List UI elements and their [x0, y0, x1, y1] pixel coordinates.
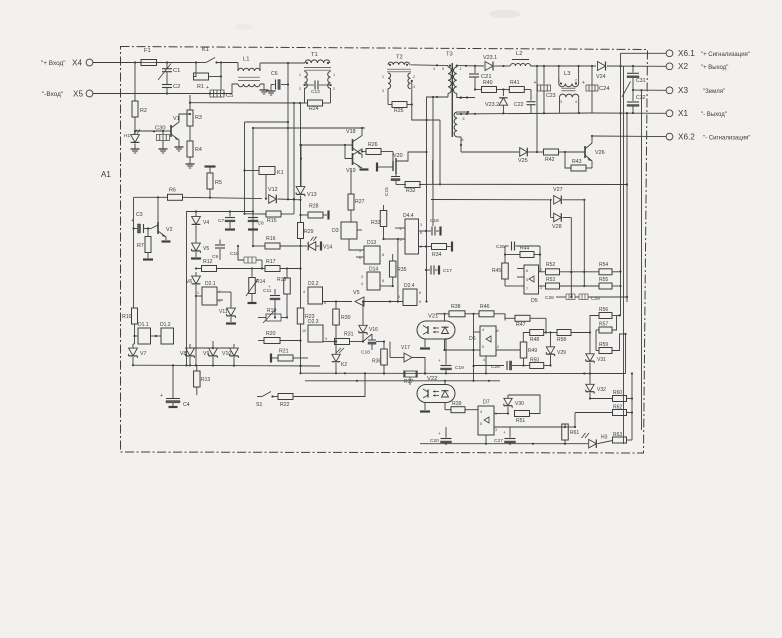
resistor R32: [396, 182, 433, 195]
trimmer R37: [404, 371, 417, 386]
svg-text:5: 5: [480, 422, 482, 426]
wire vert x433: [432, 96, 434, 226]
svg-text:R29: R29: [304, 229, 314, 235]
terminal X1: [666, 109, 727, 118]
resistor R47: [505, 314, 546, 328]
svg-text:X2: X2: [678, 62, 688, 71]
IC D2.1: [196, 281, 223, 305]
svg-text:6: 6: [462, 138, 464, 142]
IC D2.3: [302, 319, 327, 342]
wire rail x625 upper: [624, 333, 626, 374]
resistor R34: [426, 242, 452, 259]
svg-text:+: +: [268, 284, 271, 289]
svg-text:R46: R46: [480, 304, 490, 310]
svg-text:2: 2: [575, 79, 577, 83]
svg-text:D1.1: D1.1: [138, 322, 149, 328]
svg-text:V28: V28: [552, 224, 562, 230]
trimmer arrow C1: [158, 64, 171, 81]
resistor R45: [492, 263, 517, 286]
LED H1: [124, 130, 140, 146]
svg-text:F1: F1: [144, 48, 151, 54]
zener V11: [219, 308, 236, 323]
diode V12: [268, 187, 302, 203]
svg-text:V10: V10: [222, 351, 231, 357]
resistor R1: [194, 63, 223, 91]
transformer T1: [299, 52, 335, 91]
svg-text:R28: R28: [309, 204, 319, 210]
svg-text:C13: C13: [311, 89, 320, 95]
LED K2: [332, 340, 348, 373]
svg-text:R32: R32: [406, 188, 416, 194]
capacitor C16: [426, 218, 441, 236]
capacitor C8: [248, 210, 264, 229]
diode V23.2: [485, 90, 508, 115]
transistor V19: [346, 149, 369, 174]
terminal X6.1: [666, 49, 750, 58]
svg-text:R58: R58: [557, 337, 566, 343]
svg-text:R27: R27: [355, 199, 365, 205]
resistor R43: [565, 152, 592, 171]
svg-text:D13: D13: [367, 240, 376, 246]
wire rail to V23.1: [456, 65, 484, 67]
svg-text:1: 1: [382, 75, 384, 79]
svg-text:R48: R48: [530, 337, 539, 343]
resistor R5: [205, 167, 222, 198]
wire column x133: [132, 197, 134, 308]
svg-text:5: 5: [463, 117, 465, 121]
IC D14: [361, 267, 384, 291]
wire D7 out ext: [565, 426, 575, 428]
resistor R13: [194, 365, 211, 395]
svg-text:R23: R23: [305, 314, 315, 320]
svg-text:R55: R55: [599, 277, 608, 283]
svg-text:C23: C23: [546, 93, 556, 99]
resistor R56: [599, 307, 621, 319]
svg-text:3: 3: [382, 89, 384, 93]
wire T3 primary bottom: [427, 96, 449, 178]
wire X6.2: [592, 135, 666, 138]
svg-text:R34: R34: [432, 252, 442, 258]
wire x294: [293, 103, 295, 214]
zener V13: [296, 187, 316, 210]
wire X1: [592, 112, 666, 114]
resistor R61: [562, 424, 580, 444]
svg-text:C24: C24: [599, 86, 610, 92]
zener V10: [222, 344, 238, 366]
svg-text:D5: D5: [531, 298, 538, 304]
svg-text:C16: C16: [430, 218, 439, 224]
svg-text:2: 2: [413, 75, 415, 79]
svg-text:2: 2: [497, 345, 499, 349]
transformer T2: [382, 55, 415, 94]
resistor R26: [362, 142, 393, 155]
wire rail y184: [433, 160, 628, 186]
resistor R16: [253, 236, 301, 249]
wire V22 pins: [420, 380, 446, 412]
buffer V5: [353, 290, 403, 306]
svg-text:4: 4: [483, 358, 485, 362]
svg-text:V8: V8: [180, 351, 186, 357]
resistor R22: [273, 373, 366, 408]
inductor L2: [511, 51, 531, 66]
wire x300: [299, 103, 301, 187]
capacitor C31: [627, 66, 646, 91]
svg-text:R37: R37: [404, 379, 413, 385]
capacitor C30: [135, 126, 170, 147]
resistor R6: [134, 188, 268, 201]
ground under L1: [260, 87, 269, 94]
terminal X6.2: [666, 133, 750, 142]
svg-text:R6: R6: [169, 188, 176, 194]
svg-text:R10: R10: [122, 314, 132, 320]
svg-text:R44: R44: [520, 246, 529, 252]
svg-text:+: +: [438, 431, 441, 436]
svg-text:+: +: [438, 358, 441, 363]
svg-text:C6: C6: [271, 71, 278, 77]
wire x301 down: [300, 246, 302, 308]
wire rail x623: [623, 66, 625, 444]
terminal X5: [42, 90, 93, 99]
svg-text:D2.2: D2.2: [308, 281, 319, 287]
svg-text:R31: R31: [344, 332, 354, 338]
wire x632: [631, 372, 633, 440]
svg-text:V23.1: V23.1: [483, 55, 497, 61]
svg-text:4: 4: [575, 100, 577, 104]
svg-text:S1: S1: [256, 402, 262, 408]
svg-text:C20: C20: [430, 438, 439, 444]
wire x571: [570, 218, 572, 299]
wire x253 mid: [252, 128, 254, 247]
resistor R63: [613, 432, 633, 443]
resistor R21: [271, 349, 308, 363]
resistor R40: [474, 80, 510, 93]
wire D5 pins: [517, 269, 524, 287]
wire V18 base: [301, 144, 353, 146]
resistor R53: [539, 277, 600, 289]
resistor R33: [371, 205, 387, 240]
resistor R52: [539, 262, 600, 275]
resistor R4: [187, 141, 202, 161]
svg-text:1: 1: [558, 79, 560, 83]
svg-text:V17: V17: [401, 345, 410, 351]
svg-text:5: 5: [526, 278, 528, 282]
svg-text:D2.4: D2.4: [404, 283, 415, 289]
capacitor C15: [377, 163, 400, 197]
wire x398: [397, 239, 399, 302]
svg-text:"+ Сигнализация": "+ Сигнализация": [701, 52, 750, 58]
zener V9: [203, 341, 217, 366]
svg-text:X1: X1: [678, 109, 688, 118]
svg-text:5: 5: [442, 67, 444, 71]
wire y122: [245, 121, 290, 123]
wire V23.1-L2: [494, 65, 510, 67]
svg-text:R7: R7: [137, 243, 144, 249]
svg-text:+: +: [160, 393, 163, 399]
svg-text:8: 8: [419, 291, 421, 295]
svg-text:V26: V26: [595, 150, 605, 156]
svg-text:C26: C26: [491, 364, 500, 370]
capacitor C4: [160, 365, 190, 408]
wire X3: [633, 89, 666, 91]
transistor V1: [163, 114, 190, 144]
wire D6 pins: [472, 314, 480, 382]
resistor R62: [574, 405, 632, 429]
svg-text:R52: R52: [546, 262, 555, 268]
wire D4 pins: [382, 228, 427, 248]
svg-text:T1: T1: [311, 52, 318, 58]
transistor V18: [346, 127, 363, 158]
wire V19 base: [344, 144, 353, 159]
svg-text:3: 3: [540, 286, 542, 290]
resistor R42: [544, 149, 586, 163]
svg-text:L3: L3: [564, 71, 570, 77]
svg-text:1: 1: [495, 412, 497, 416]
comparator D5: [524, 265, 542, 304]
svg-text:C8: C8: [258, 221, 264, 227]
svg-text:R39: R39: [452, 401, 462, 407]
svg-text:3: 3: [420, 223, 422, 227]
transistor V2: [150, 197, 173, 241]
svg-text:K1: K1: [202, 47, 209, 53]
resistor R54: [599, 262, 621, 275]
capacitor C27: [494, 427, 516, 445]
resistor R48: [523, 318, 557, 343]
svg-text:V31: V31: [597, 357, 606, 363]
svg-text:D2.1: D2.1: [205, 281, 216, 287]
svg-text:R51: R51: [516, 418, 525, 424]
svg-text:H3: H3: [601, 435, 608, 441]
transistor V20 mosfet: [393, 151, 428, 176]
svg-text:"-Вход": "-Вход": [42, 91, 63, 98]
diode V27: [550, 187, 586, 204]
svg-text:C7: C7: [218, 218, 224, 224]
optocoupler V22: [417, 376, 455, 403]
svg-text:R60: R60: [613, 390, 622, 396]
svg-text:V27: V27: [553, 187, 563, 193]
resistor R60: [589, 390, 632, 402]
svg-text:"Земля": "Земля": [703, 89, 725, 95]
zener V31: [586, 333, 606, 374]
svg-text:X4: X4: [72, 59, 82, 68]
ground under H1: [131, 146, 140, 153]
transistor V26: [585, 135, 605, 168]
svg-text:V32: V32: [597, 387, 606, 393]
svg-text:9: 9: [419, 300, 421, 304]
svg-text:+: +: [534, 80, 537, 86]
capacitor C7: [218, 212, 235, 230]
wire rail x537: [536, 66, 538, 152]
svg-text:T2: T2: [396, 55, 403, 61]
svg-text:K2: K2: [341, 362, 347, 368]
capacitor C3: [131, 212, 150, 233]
capacitor C24: [582, 66, 610, 113]
zener V30: [504, 395, 524, 415]
wire bottom rail X1: [456, 112, 592, 115]
wire mid bus y103: [189, 102, 305, 105]
svg-text:R17: R17: [266, 259, 276, 265]
svg-text:4: 4: [482, 328, 484, 332]
capacitor C2: [162, 72, 180, 94]
svg-text:R61: R61: [570, 430, 579, 436]
svg-text:V23.2: V23.2: [485, 102, 499, 108]
svg-text:X3: X3: [678, 86, 688, 95]
svg-text:+: +: [503, 430, 506, 435]
ground under C6: [267, 88, 276, 95]
resistor R57: [599, 316, 617, 334]
wire D2.1 out: [217, 292, 231, 308]
svg-text:R18: R18: [277, 277, 286, 283]
IC D1.1: [135, 322, 151, 344]
wire K1-L1: [217, 62, 239, 64]
inductor L3: [558, 65, 580, 113]
wire x196 down: [195, 296, 197, 365]
svg-text:+: +: [206, 85, 209, 91]
resistor R15: [245, 211, 295, 224]
terminal X2: [666, 62, 728, 71]
wire x301 top: [300, 144, 302, 186]
wire rail x426: [425, 178, 427, 303]
svg-text:D4.4: D4.4: [403, 213, 414, 219]
svg-text:R47: R47: [516, 322, 526, 328]
svg-text:"+ Выход": "+ Выход": [701, 65, 728, 71]
wire L2-V24: [531, 65, 597, 67]
svg-text:V16: V16: [369, 327, 378, 333]
wire rail x620: [619, 53, 621, 316]
zener V29: [546, 333, 566, 367]
resistor R38: [436, 304, 479, 317]
resistor R7: [137, 229, 153, 260]
wire L1-T1: [260, 62, 305, 64]
svg-text:V14: V14: [323, 245, 332, 251]
resistor R27: [348, 168, 365, 222]
svg-text:C15: C15: [384, 187, 390, 196]
capacitor C17: [425, 266, 452, 275]
diode V25: [518, 148, 528, 164]
svg-text:L1: L1: [243, 57, 249, 63]
svg-text:R25: R25: [394, 108, 404, 114]
svg-text:7: 7: [526, 287, 528, 291]
svg-text:C10: C10: [230, 251, 239, 257]
wire R56 left: [590, 316, 599, 333]
svg-text:4: 4: [413, 85, 415, 89]
svg-text:V13: V13: [307, 192, 317, 198]
wire x584: [583, 200, 585, 287]
ground under C30: [159, 146, 168, 153]
svg-text:C5: C5: [226, 93, 233, 99]
svg-text:X6.2: X6.2: [678, 133, 695, 142]
resistor R12: [195, 259, 265, 272]
zener V32: [586, 374, 606, 399]
transformer T3: [433, 52, 465, 143]
svg-text:V1: V1: [173, 116, 180, 122]
diode V24: [596, 62, 606, 81]
terminal X4: [41, 59, 93, 68]
trimmer R14: [246, 269, 265, 304]
svg-text:C3: C3: [136, 212, 143, 218]
svg-text:R22: R22: [280, 402, 290, 408]
svg-text:6: 6: [526, 269, 528, 273]
svg-text:3: 3: [361, 275, 363, 279]
svg-text:V5: V5: [353, 290, 360, 296]
capacitor C25: [496, 242, 540, 251]
svg-text:V9: V9: [203, 351, 209, 357]
ground under R4: [186, 161, 195, 168]
wire T3 sec1 bottom: [457, 93, 475, 98]
svg-text:X6.1: X6.1: [678, 49, 695, 58]
capacitor C19: [438, 338, 464, 374]
zener V5 shunt: [191, 243, 209, 258]
capacitor C13: [303, 81, 331, 96]
resistor R3: [187, 95, 202, 141]
wire F1-K1: [157, 61, 200, 63]
svg-text:R24: R24: [309, 106, 319, 112]
svg-text:C32: C32: [636, 95, 646, 101]
svg-text:R35: R35: [397, 267, 407, 273]
svg-text:V6: V6: [186, 279, 192, 285]
svg-text:R2: R2: [140, 108, 147, 114]
choke L1: [232, 57, 264, 94]
svg-text:R38: R38: [451, 304, 461, 310]
resistor R39: [445, 401, 478, 413]
svg-text:H1: H1: [124, 133, 130, 139]
svg-text:1: 1: [460, 67, 462, 71]
svg-text:V22: V22: [427, 376, 437, 382]
svg-text:R5: R5: [215, 180, 222, 186]
svg-text:9: 9: [325, 337, 327, 341]
LED H3: [582, 433, 613, 448]
resistor R50: [522, 358, 550, 369]
svg-text:4: 4: [398, 295, 400, 299]
wire rail y365 link: [299, 365, 301, 375]
wire T3 sec2: [457, 111, 469, 152]
svg-text:R15: R15: [267, 218, 277, 224]
svg-text:R1: R1: [197, 84, 204, 90]
resistor R31: [323, 332, 363, 345]
zener V7: [129, 344, 147, 365]
svg-text:1: 1: [299, 73, 301, 77]
svg-text:R56: R56: [599, 307, 608, 313]
svg-text:5: 5: [359, 249, 361, 253]
svg-text:R40: R40: [483, 80, 493, 86]
svg-text:C28: C28: [545, 295, 554, 301]
svg-text:"+ Вход": "+ Вход": [41, 60, 66, 67]
svg-text:R12: R12: [203, 259, 213, 265]
svg-text:R13: R13: [201, 377, 210, 383]
comparator D7: [478, 400, 497, 436]
svg-text:8: 8: [382, 253, 384, 257]
capacitor C10: [230, 245, 263, 270]
resistor R25: [388, 81, 413, 114]
svg-text:V25: V25: [518, 158, 528, 164]
capacitor C6: [271, 71, 289, 90]
ground under V1: [175, 144, 184, 151]
wire x244: [243, 122, 245, 215]
svg-text:C25: C25: [496, 244, 505, 250]
wire rail x641: [641, 90, 643, 430]
svg-text:R33: R33: [371, 220, 381, 226]
wire V25-R42: [528, 151, 544, 153]
svg-text:3: 3: [560, 100, 562, 104]
resistor R30: [333, 300, 351, 342]
svg-text:V18: V18: [346, 129, 356, 135]
svg-text:V4: V4: [203, 220, 209, 226]
svg-text:C1: C1: [173, 68, 180, 74]
wire rail y199: [431, 199, 549, 201]
svg-text:C19: C19: [455, 365, 464, 371]
wire rail y373: [301, 372, 626, 374]
resistor R41: [509, 80, 531, 93]
logic gate D3: [332, 222, 364, 257]
